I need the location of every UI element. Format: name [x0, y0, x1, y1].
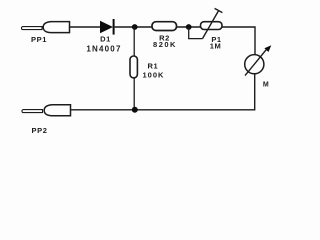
resistor R1 body — [130, 56, 137, 78]
resistor R2 body — [152, 22, 177, 31]
meter M needle arrow — [245, 45, 271, 75]
svg-text:1N4007: 1N4007 — [86, 45, 121, 54]
diode D1 1N4007 — [100, 19, 114, 35]
svg-text:D1: D1 — [100, 35, 111, 44]
svg-text:820K: 820K — [153, 40, 177, 49]
svg-text:M: M — [263, 82, 269, 89]
svg-text:PP2: PP2 — [32, 126, 48, 135]
probe PP1 — [21, 22, 69, 33]
wire diode to node A — [115, 26, 152, 28]
node C junction dot — [132, 107, 138, 113]
svg-text:100K: 100K — [143, 71, 165, 80]
wire node A down to R1 — [133, 27, 135, 56]
potentiometer P1 body — [201, 22, 223, 30]
svg-text:R1: R1 — [148, 62, 159, 71]
potentiometer P1 wiper arrow — [203, 8, 223, 38]
svg-text:PP1: PP1 — [31, 35, 47, 44]
wire P1 to top-right corner and down to meter — [222, 27, 255, 55]
wire meter down to bottom-right corner — [71, 74, 255, 110]
probe PP2 — [22, 105, 71, 116]
wire PP1 to diode — [70, 26, 101, 28]
node A junction dot — [132, 24, 138, 30]
wire R1 down to node C — [133, 78, 135, 110]
wire node B to P1 wiper — [189, 27, 203, 39]
wire R2 to node B — [177, 26, 201, 28]
node B junction dot — [186, 24, 192, 30]
meter M body — [245, 55, 264, 74]
svg-text:1M: 1M — [210, 42, 222, 51]
